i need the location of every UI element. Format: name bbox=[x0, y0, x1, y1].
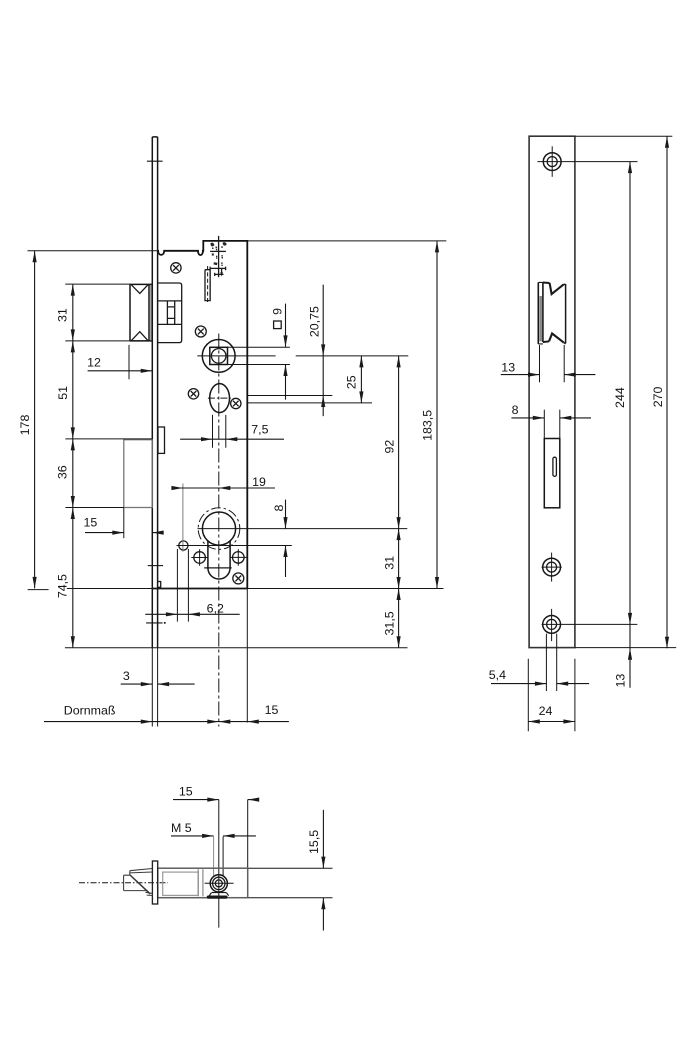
svg-text:24: 24 bbox=[539, 704, 553, 718]
spring bar bbox=[205, 266, 210, 304]
screw axis vertical bbox=[218, 800, 220, 928]
faceplate strip bbox=[152, 137, 157, 648]
lock case bottom edge bbox=[152, 588, 247, 590]
screw hole extensions below bbox=[546, 634, 556, 691]
svg-text:15: 15 bbox=[265, 703, 279, 717]
adjustment detail centre line bbox=[218, 236, 220, 277]
svg-text:3: 3 bbox=[123, 669, 130, 683]
dimension chain 31/51/36/74,5 bbox=[56, 284, 75, 648]
left extension line latch bottom bbox=[65, 340, 149, 342]
svg-text:13: 13 bbox=[614, 674, 628, 688]
svg-text:51: 51 bbox=[56, 386, 70, 400]
fixing screw section bbox=[205, 875, 234, 892]
case edge extension vertical bbox=[247, 800, 249, 869]
latch opening extension lines bbox=[540, 345, 565, 382]
screw washer foot bbox=[207, 893, 229, 899]
faceplate extension lines to Dornmass row bbox=[152, 648, 157, 727]
main vertical centre line bbox=[218, 334, 220, 727]
svg-text:19: 19 bbox=[252, 475, 266, 489]
deadbolt (grey) bbox=[124, 440, 152, 508]
svg-text:8: 8 bbox=[512, 403, 519, 417]
dimension 15 bolt bbox=[84, 516, 164, 535]
adjustment detail cross bar 1 bbox=[210, 250, 226, 252]
follower square bottom extension bbox=[228, 364, 290, 366]
6,2 extension lines bbox=[177, 549, 188, 622]
svg-text:13: 13 bbox=[501, 360, 515, 374]
reference line 20,75 bottom bbox=[247, 395, 332, 397]
dimension 20,75 bbox=[308, 285, 326, 417]
dimension 244 and 13 bbox=[613, 162, 632, 688]
svg-text:15: 15 bbox=[84, 516, 98, 530]
rivet screw S1 bbox=[171, 263, 181, 273]
svg-text:36: 36 bbox=[56, 465, 70, 479]
dimension 24 bbox=[528, 704, 575, 723]
view centre line bbox=[79, 882, 168, 884]
latch inner edge (grey) bbox=[150, 285, 152, 341]
adjustment detail scribble marks bbox=[210, 242, 226, 266]
left extension line latch top bbox=[65, 283, 130, 285]
dimension 12 bbox=[87, 355, 152, 373]
svg-text:15: 15 bbox=[179, 785, 193, 799]
adjustment detail arrow bbox=[220, 272, 223, 276]
dimension 178 bbox=[18, 251, 37, 589]
follower square top extension bbox=[228, 346, 290, 348]
svg-text:8: 8 bbox=[272, 505, 286, 512]
latch edge extension for 12 bbox=[128, 345, 130, 379]
adjustment detail cross bar 2 with end ticks bbox=[210, 267, 226, 271]
bolt opening on case front bbox=[158, 427, 165, 453]
middle screw hole bbox=[542, 553, 562, 582]
svg-text:31: 31 bbox=[56, 308, 70, 322]
left extension line bolt bottom bbox=[65, 507, 123, 509]
latch tip section bbox=[124, 869, 153, 896]
svg-text:244: 244 bbox=[613, 387, 627, 408]
plate edge extensions below bbox=[528, 659, 575, 731]
case height extension lines bbox=[248, 867, 333, 869]
dimension 7,5 bbox=[180, 423, 284, 442]
oval edge extension lines bbox=[213, 415, 226, 448]
dimension 25 bbox=[345, 356, 364, 403]
rivet screw S4 bbox=[231, 398, 241, 408]
follower centre line horizontal bbox=[197, 355, 408, 357]
lock case outline with notched top edge bbox=[158, 241, 248, 589]
case cavity (grey) bbox=[163, 872, 199, 895]
follower U1 bbox=[202, 340, 235, 373]
svg-text:92: 92 bbox=[382, 440, 396, 454]
top screw hole bbox=[537, 146, 637, 177]
dimension 13 latch opening bbox=[501, 360, 596, 376]
svg-text:9: 9 bbox=[270, 308, 284, 315]
profile cylinder hole bbox=[198, 508, 240, 579]
faceplate break tick low with dot bbox=[146, 622, 166, 624]
svg-text:25: 25 bbox=[345, 375, 359, 389]
bolt opening bbox=[544, 439, 560, 508]
svg-text:178: 178 bbox=[18, 415, 32, 436]
Dornmass dimension row bbox=[44, 703, 289, 724]
oval centre line horizontal bbox=[208, 397, 231, 399]
case bottom long extension line bbox=[28, 589, 444, 590]
case body section bbox=[158, 868, 248, 898]
faceplate section bbox=[152, 861, 157, 904]
svg-text:183,5: 183,5 bbox=[421, 410, 435, 441]
dimension square 9 bbox=[270, 304, 287, 400]
case lower extension line (31,5 bottom) bbox=[65, 647, 408, 649]
bolt opening slot bbox=[553, 457, 557, 476]
case top extension line left bbox=[28, 250, 158, 252]
rivet screw S2 bbox=[195, 326, 206, 337]
bottom screw hole bbox=[542, 609, 638, 641]
dimension 8 left view bbox=[272, 500, 287, 577]
svg-text:31: 31 bbox=[382, 556, 396, 570]
locking pin oval bbox=[210, 384, 230, 413]
M5 fixing hole bbox=[179, 541, 188, 550]
dimension 3 bbox=[121, 669, 195, 686]
case edge extension to Dornmass row bbox=[246, 589, 248, 723]
svg-text:270: 270 bbox=[651, 386, 665, 407]
reference line 25 bottom bbox=[247, 402, 372, 404]
latch opening bbox=[538, 282, 565, 344]
M5 extension verticals bbox=[213, 837, 215, 877]
fixing hole centre line vertical (grey) bbox=[182, 484, 184, 552]
dimension 6,2 bbox=[145, 601, 239, 616]
dimension M 5 bbox=[171, 821, 256, 838]
rivet screw S5 bbox=[233, 573, 244, 584]
latch head bbox=[130, 284, 152, 341]
dimension 270 bbox=[651, 136, 669, 648]
svg-text:7,5: 7,5 bbox=[251, 423, 268, 437]
svg-text:12: 12 bbox=[87, 355, 101, 369]
faceplate plate outline bbox=[529, 136, 575, 647]
bolt opening extension lines bbox=[544, 410, 560, 439]
rivet screw S3 bbox=[188, 389, 198, 399]
cavity divider (grey) bbox=[198, 869, 203, 896]
faceplate bump near bottom bbox=[158, 582, 161, 588]
fixing hole centre line horizontal bbox=[177, 545, 292, 547]
svg-text:M 5: M 5 bbox=[171, 821, 192, 835]
adjustment detail lower bar bbox=[215, 273, 224, 276]
dimension 19 bbox=[171, 475, 275, 490]
svg-text:Dornmaß: Dornmaß bbox=[64, 704, 116, 718]
latch guide block bbox=[158, 283, 182, 343]
dimension 183,5 bbox=[421, 241, 440, 589]
dimension 8 bolt opening bbox=[511, 403, 591, 420]
screw cross left bbox=[191, 549, 208, 566]
dimension 5,4 bbox=[489, 668, 589, 686]
plate bottom extension line bbox=[575, 647, 676, 649]
svg-text:20,75: 20,75 bbox=[308, 306, 322, 337]
dimension 15,5 bbox=[307, 810, 326, 931]
case top extension line right bbox=[247, 240, 446, 242]
svg-text:6,2: 6,2 bbox=[207, 601, 224, 615]
svg-text:15,5: 15,5 bbox=[307, 830, 321, 854]
svg-text:5,4: 5,4 bbox=[489, 668, 506, 682]
plate top extension line bbox=[575, 135, 672, 137]
svg-text:31,5: 31,5 bbox=[382, 611, 396, 635]
screw cross right bbox=[230, 549, 247, 566]
follower spring box bbox=[167, 301, 174, 325]
bolt edge extension for 15 bbox=[123, 508, 125, 539]
cylinder centre line horizontal bbox=[198, 528, 408, 530]
dimension 15 bottom view bbox=[173, 785, 259, 802]
left extension line bolt top bbox=[65, 438, 152, 440]
dimension chain 92/31/31,5 bbox=[382, 356, 400, 648]
svg-text:74,5: 74,5 bbox=[56, 574, 70, 598]
faceplate break tick top bbox=[147, 160, 163, 162]
faceplate break tick mid bbox=[148, 565, 163, 567]
